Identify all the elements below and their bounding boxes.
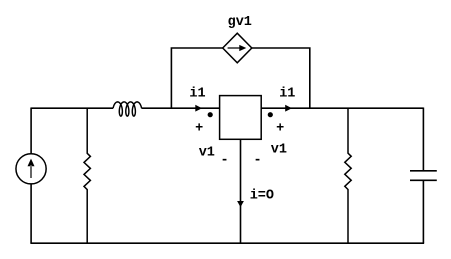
arrow i1 right [285, 105, 292, 112]
wire top rail mid [142, 107, 220, 109]
resistor R1 [84, 108, 90, 243]
wire left branch lower [30, 184, 32, 243]
svg-text:+: + [276, 121, 284, 136]
arrow in current source I1 [28, 159, 35, 178]
svg-text:i1: i1 [279, 87, 295, 102]
dependent source gv1 diamond [223, 33, 252, 63]
dot left [208, 112, 213, 117]
wire diamond right leg [252, 48, 310, 108]
inductor L1 [113, 102, 141, 116]
svg-text:v1: v1 [271, 142, 287, 157]
box U1 [220, 96, 262, 140]
arrow in gv1 [228, 45, 247, 51]
wire top rail left [31, 107, 113, 109]
wire left branch upper [30, 108, 32, 154]
svg-text:gv1: gv1 [228, 15, 252, 30]
wire middle branch [240, 139, 242, 243]
svg-text:i1: i1 [189, 87, 205, 102]
arrow i=0 down [237, 201, 244, 207]
svg-text:-: - [221, 154, 229, 169]
wire bottom rail [30, 242, 424, 244]
capacitor C1 bottom lead [410, 180, 437, 243]
wire top rail right [261, 107, 423, 109]
current source I1 [16, 154, 46, 184]
arrow i1 left [195, 105, 202, 112]
wire diamond left leg [171, 48, 222, 108]
capacitor C1 top lead [410, 108, 437, 171]
svg-text:-: - [254, 154, 262, 169]
dot right [268, 112, 273, 117]
svg-text:i=O: i=O [250, 189, 274, 204]
svg-text:v1: v1 [199, 145, 215, 160]
svg-text:+: + [195, 121, 203, 136]
resistor R2 [345, 108, 351, 243]
